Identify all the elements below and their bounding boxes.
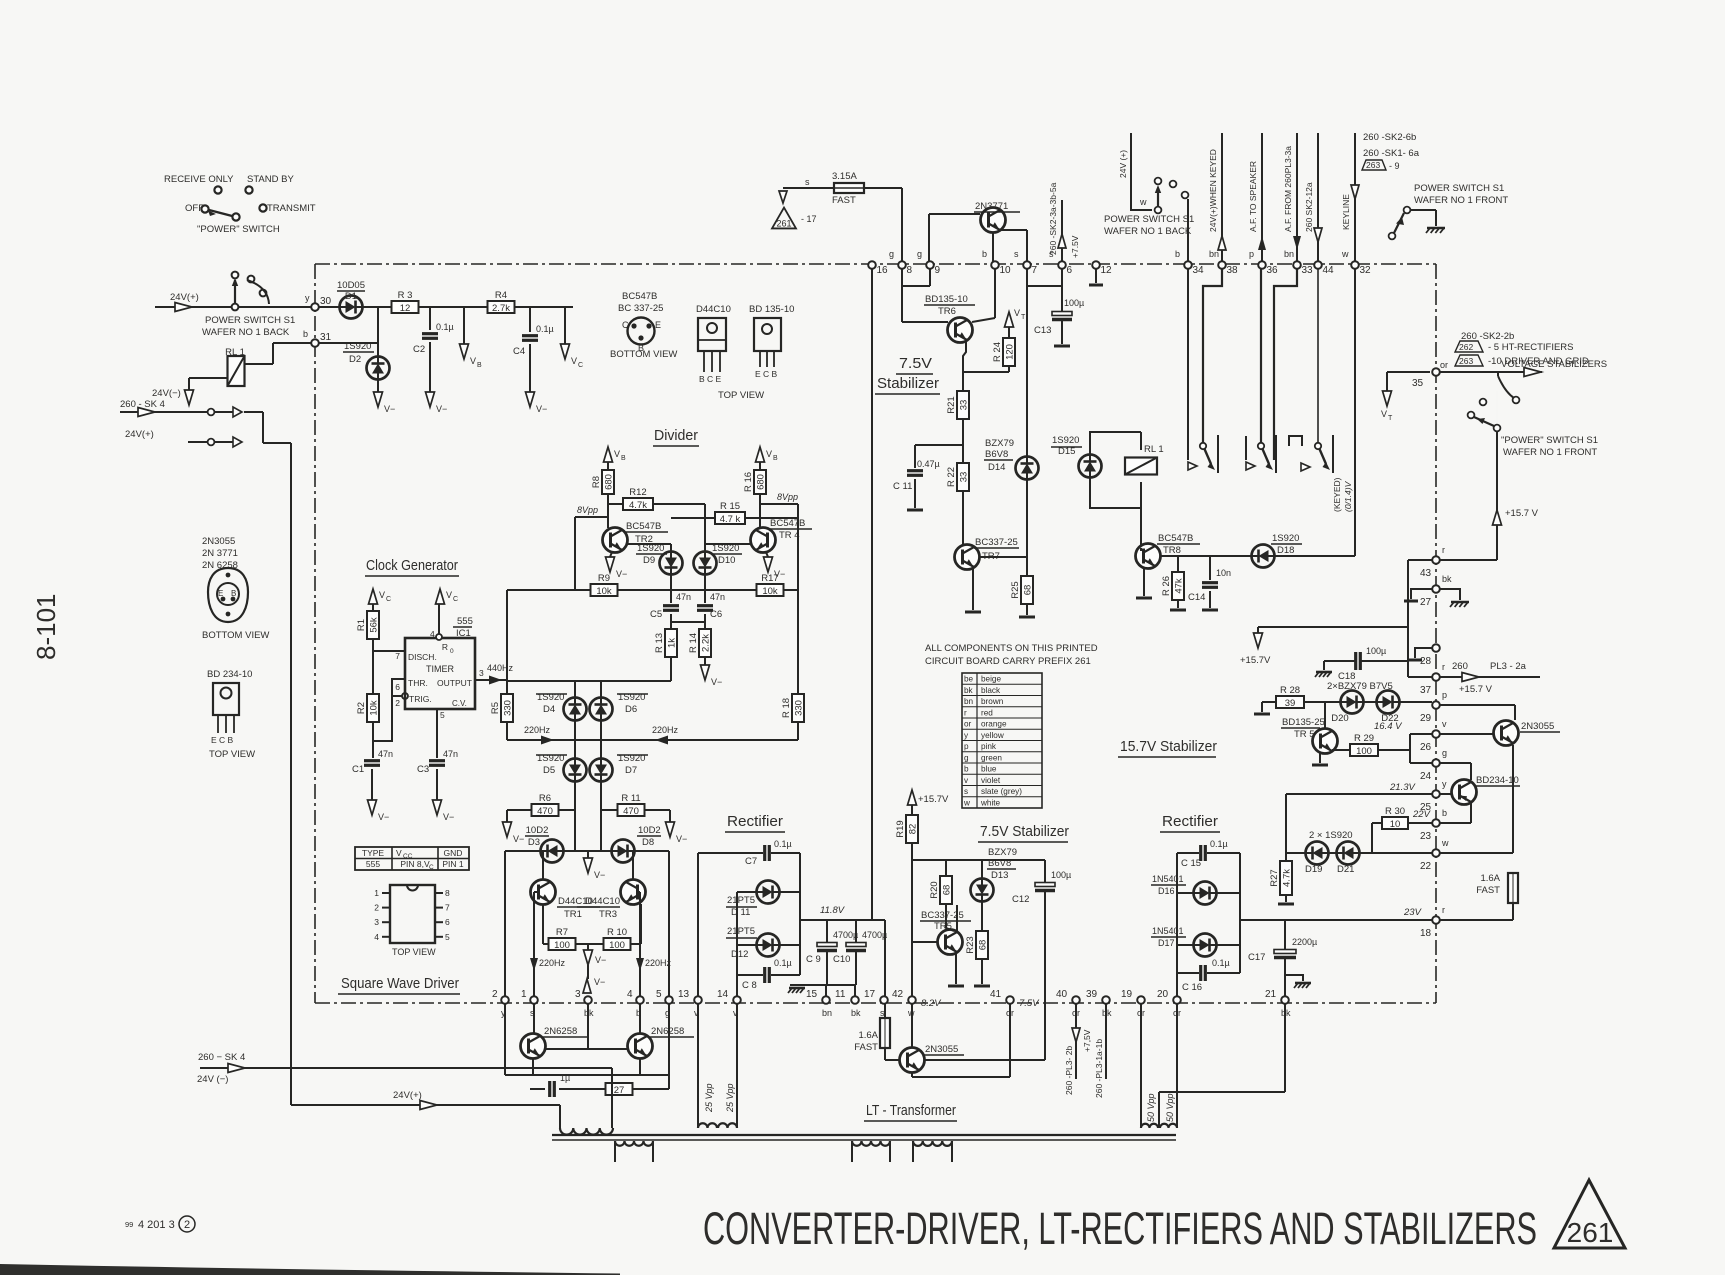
svg-text:10D2: 10D2 bbox=[526, 825, 549, 836]
svg-text:R1: R1 bbox=[356, 619, 367, 631]
wire D17 right bbox=[1217, 944, 1240, 946]
svg-text:5: 5 bbox=[440, 710, 445, 720]
wire col2 down bbox=[504, 851, 506, 1000]
svg-text:2N 3771: 2N 3771 bbox=[202, 548, 238, 559]
wire R12 to D10 col bbox=[653, 504, 705, 551]
wire R4 right bbox=[514, 306, 573, 308]
svg-text:7: 7 bbox=[445, 903, 450, 913]
node 220Hz arrow right bbox=[652, 725, 679, 745]
node terminal 30 bbox=[311, 296, 331, 311]
node terminal 43 bbox=[1420, 545, 1445, 579]
svg-text:r: r bbox=[1442, 662, 1445, 672]
svg-text:V−: V− bbox=[513, 834, 524, 844]
svg-text:D16: D16 bbox=[1158, 886, 1175, 896]
wire col2 below bbox=[504, 1004, 506, 1075]
node terminal 40 bbox=[1056, 989, 1080, 1018]
svg-text:260 − SK 4: 260 − SK 4 bbox=[198, 1052, 245, 1063]
node Rectifier title right bbox=[1160, 813, 1220, 832]
svg-text:BC547B: BC547B bbox=[626, 521, 661, 532]
svg-text:680: 680 bbox=[756, 474, 767, 490]
svg-text:7: 7 bbox=[395, 651, 400, 661]
svg-text:330: 330 bbox=[503, 700, 514, 716]
wire 22 row left bbox=[1286, 852, 1305, 854]
inductor 50Vpp winding bbox=[1141, 1124, 1177, 1128]
svg-text:24V(+): 24V(+) bbox=[393, 1090, 422, 1101]
wire 24V(+) to transformer bbox=[559, 1105, 561, 1128]
wire BD234 base col bbox=[1470, 763, 1472, 780]
ground C18 bbox=[1315, 672, 1332, 677]
svg-text:C: C bbox=[578, 362, 583, 369]
node terminal 7 bbox=[1014, 249, 1038, 276]
capacitor C18 100u bbox=[1338, 646, 1386, 682]
wire C8 right bbox=[771, 974, 800, 976]
wire C14 bar bbox=[1202, 591, 1218, 610]
svg-text:g: g bbox=[889, 249, 894, 259]
svg-text:14: 14 bbox=[717, 989, 729, 1000]
wire 22 row right bbox=[1440, 852, 1513, 854]
node R27 gnd bar bbox=[1278, 903, 1294, 906]
svg-text:260 -PL3-1a-1b: 260 -PL3-1a-1b bbox=[1094, 1039, 1104, 1098]
resistor R9 10k bbox=[591, 573, 618, 597]
wire R18 to 220Hz rail bbox=[797, 722, 799, 740]
wire R5 to 220Hz rail bbox=[506, 722, 508, 740]
svg-text:FAST: FAST bbox=[1476, 885, 1500, 896]
svg-text:TR3: TR3 bbox=[599, 909, 617, 920]
node PCB boundary bottom edge bbox=[315, 1002, 1436, 1004]
wire R7-R10 junction bbox=[576, 944, 603, 952]
svg-text:V−: V− bbox=[594, 977, 605, 987]
wire C11 to bar bbox=[914, 479, 916, 508]
wire C9 tap bbox=[826, 920, 828, 945]
wire D13 to R23 bbox=[981, 902, 983, 931]
svg-text:39: 39 bbox=[1285, 698, 1296, 709]
connector SK4 contact a bbox=[233, 407, 242, 417]
power VB arrow bbox=[460, 344, 483, 369]
wire TR5b emitter bbox=[1312, 753, 1328, 765]
switch POWER rotary arm bbox=[208, 210, 240, 221]
resistor R1 56k bbox=[356, 611, 380, 639]
svg-text:w: w bbox=[963, 798, 970, 807]
wire inter-transistor bbox=[545, 1048, 628, 1050]
svg-text:V−: V− bbox=[594, 870, 605, 880]
svg-text:26: 26 bbox=[1420, 742, 1432, 753]
wire col5 below bbox=[668, 1004, 670, 1089]
svg-text:T: T bbox=[1021, 314, 1026, 321]
resistor R21 33 bbox=[946, 391, 970, 419]
svg-text:R 22: R 22 bbox=[946, 467, 957, 487]
wire THR/TRIG bridge bbox=[373, 679, 405, 741]
node terminal 12 stub bbox=[1089, 268, 1103, 285]
node 28 hook bbox=[1408, 648, 1432, 660]
node sheet number triangle bbox=[1554, 1180, 1625, 1248]
node terminal 13 bbox=[678, 989, 702, 1018]
svg-text:s: s bbox=[805, 177, 810, 187]
transistor TR5 BD135-25 bbox=[1281, 717, 1338, 754]
fuse 1.6A mid bbox=[854, 1004, 890, 1053]
node 2N3055 package labels bbox=[202, 536, 238, 571]
node Square Wave Driver title bbox=[338, 975, 460, 994]
wire col1 below bbox=[533, 1004, 535, 1034]
node 260-SK2-3a-3b-5a label bbox=[1048, 182, 1058, 255]
node 8Vpp label right bbox=[777, 492, 798, 502]
diode D18 1S920 bbox=[1252, 533, 1303, 568]
svg-text:C13: C13 bbox=[1034, 325, 1051, 336]
svg-text:2200µ: 2200µ bbox=[1292, 937, 1317, 947]
wire corner to 25 row bbox=[1285, 794, 1287, 860]
svg-text:slate (grey): slate (grey) bbox=[981, 787, 1022, 796]
svg-text:100: 100 bbox=[554, 940, 570, 951]
transistor TR 2N6258 left bbox=[521, 1026, 588, 1059]
wire TR3 base bbox=[637, 892, 640, 1000]
node STAND BY contact bbox=[245, 174, 294, 194]
svg-text:TR5: TR5 bbox=[934, 921, 952, 932]
svg-text:b: b bbox=[303, 329, 308, 339]
svg-text:Divider: Divider bbox=[654, 427, 698, 444]
svg-text:bk: bk bbox=[851, 1008, 861, 1018]
transistor TR5 BC337-25 bbox=[920, 910, 971, 955]
wire rail to R18 corner bbox=[784, 590, 798, 695]
node terminal 20 bbox=[1157, 989, 1181, 1018]
svg-text:BD135-10: BD135-10 bbox=[925, 294, 968, 305]
wire D20-D22 bbox=[1364, 701, 1376, 703]
svg-text:10k: 10k bbox=[596, 586, 612, 597]
svg-text:39: 39 bbox=[1086, 989, 1098, 1000]
resistor R7 100 bbox=[549, 927, 576, 951]
svg-text:RECEIVE ONLY: RECEIVE ONLY bbox=[164, 174, 234, 185]
svg-text:TR8: TR8 bbox=[1163, 545, 1181, 556]
node terminal 28 bbox=[1420, 644, 1440, 667]
svg-text:41: 41 bbox=[990, 989, 1002, 1000]
svg-text:B C E: B C E bbox=[699, 374, 722, 384]
resistor R18 330 bbox=[781, 694, 805, 722]
svg-text:260 -SK2-3a-3b-5a: 260 -SK2-3a-3b-5a bbox=[1048, 182, 1058, 255]
svg-text:0.1µ: 0.1µ bbox=[774, 958, 792, 968]
wire C3 to V- bbox=[436, 769, 438, 800]
svg-text:16.4 V: 16.4 V bbox=[1374, 721, 1403, 732]
node 27 hook bbox=[1404, 589, 1432, 601]
svg-text:+7.5V: +7.5V bbox=[1070, 235, 1080, 258]
wire TR4 emitter bbox=[766, 552, 768, 557]
svg-text:R 10: R 10 bbox=[607, 927, 627, 938]
node Divider title bbox=[653, 427, 699, 446]
capacitor C17 2200u bbox=[1248, 920, 1317, 963]
svg-text:V−: V− bbox=[616, 569, 627, 579]
wire D15 loop bbox=[1090, 432, 1141, 508]
svg-text:(0/1.4)V: (0/1.4)V bbox=[1343, 480, 1353, 512]
svg-text:1k: 1k bbox=[667, 638, 678, 648]
diode D8 10D2 bbox=[612, 825, 662, 863]
diode D11 21PT5 bbox=[726, 881, 780, 919]
svg-text:68: 68 bbox=[1023, 585, 1034, 596]
svg-text:1N5401: 1N5401 bbox=[1152, 926, 1184, 936]
svg-text:C4: C4 bbox=[513, 346, 525, 357]
svg-text:260 -SK2-6b: 260 -SK2-6b bbox=[1363, 132, 1416, 143]
wire C17 bottom bbox=[1284, 958, 1286, 996]
svg-text:R 24: R 24 bbox=[992, 342, 1003, 362]
svg-text:0.47µ: 0.47µ bbox=[917, 459, 940, 469]
wire C13 stub bbox=[1061, 286, 1063, 314]
svg-text:0.1µ: 0.1µ bbox=[436, 322, 454, 332]
svg-text:C: C bbox=[622, 320, 629, 330]
wire C4 to V- bbox=[529, 344, 531, 392]
svg-text:+15.7V: +15.7V bbox=[918, 794, 949, 805]
svg-text:+15.7V: +15.7V bbox=[1240, 655, 1271, 666]
node 23V label bbox=[1403, 907, 1423, 918]
wire 2N3055 mid collector bbox=[925, 1059, 1045, 1061]
wire col44 up bbox=[1314, 133, 1322, 262]
wire 35 or row bbox=[1387, 360, 1448, 372]
svg-text:6: 6 bbox=[1067, 265, 1073, 276]
node +7.5V rotated bbox=[1070, 235, 1080, 258]
svg-text:1S920: 1S920 bbox=[1052, 435, 1079, 446]
svg-text:or: or bbox=[964, 720, 972, 729]
ic U1 555 timer box bbox=[395, 638, 484, 720]
wire rail to col17 bbox=[872, 920, 885, 996]
svg-text:white: white bbox=[980, 798, 1001, 807]
wire 2N3771 emitter bbox=[1000, 230, 1027, 262]
wire C9 bottom bbox=[826, 951, 828, 985]
node terminal 39 bbox=[1086, 989, 1112, 1018]
svg-text:D1: D1 bbox=[345, 291, 357, 302]
wire C7 row bbox=[698, 852, 763, 854]
svg-text:8: 8 bbox=[445, 888, 450, 898]
wire R15 right to 8Vpp col bbox=[745, 517, 798, 519]
svg-text:2N3055: 2N3055 bbox=[202, 536, 235, 547]
node terminal 34 bbox=[1175, 249, 1204, 276]
svg-text:+7,5V: +7,5V bbox=[1082, 1029, 1092, 1052]
wire BD234 emitter bbox=[1470, 803, 1472, 823]
svg-text:15: 15 bbox=[806, 989, 818, 1000]
node 16.4V label bbox=[1374, 721, 1403, 732]
wire R30 left bbox=[1372, 823, 1382, 853]
power +15.7V arrow R19 bbox=[908, 790, 950, 805]
svg-text:R 13: R 13 bbox=[654, 633, 665, 653]
wire 24V(+) feed row bbox=[291, 1090, 560, 1110]
svg-text:4.7 k: 4.7 k bbox=[720, 514, 741, 525]
resistor R16 680 bbox=[743, 462, 767, 494]
svg-text:R 11: R 11 bbox=[621, 793, 640, 804]
svg-text:2N3055: 2N3055 bbox=[925, 1044, 958, 1055]
wire RL1 col bbox=[1140, 432, 1142, 548]
resistor R11 470 bbox=[601, 793, 670, 822]
node triangle 261 -17 bbox=[772, 208, 817, 229]
diode D21 1S920 bbox=[1337, 842, 1360, 876]
svg-text:B6V8: B6V8 bbox=[985, 449, 1008, 460]
svg-text:2: 2 bbox=[374, 903, 379, 913]
wire D1 to R3 bbox=[362, 306, 392, 308]
svg-text:B: B bbox=[477, 362, 482, 369]
svg-text:PL3 - 2a: PL3 - 2a bbox=[1490, 661, 1527, 672]
svg-text:11: 11 bbox=[835, 989, 846, 1000]
inductor secondary winding b bbox=[852, 1141, 890, 1162]
node 260-SK1-6a label bbox=[1363, 148, 1420, 159]
node 260-SK4 label bbox=[120, 399, 165, 410]
svg-text:68: 68 bbox=[978, 940, 989, 951]
svg-text:r: r bbox=[1442, 905, 1445, 915]
svg-text:w: w bbox=[1139, 197, 1147, 207]
resistor 27 bbox=[606, 1083, 633, 1096]
svg-text:24V (−): 24V (−) bbox=[197, 1074, 228, 1085]
node terminal 2 bbox=[492, 989, 509, 1018]
svg-text:C: C bbox=[429, 864, 434, 871]
svg-text:r: r bbox=[1442, 545, 1445, 555]
node TOP VIEW caption mid bbox=[718, 390, 764, 401]
node terminal 15 bbox=[806, 989, 832, 1018]
inductor 25Vpp winding bbox=[698, 1123, 737, 1128]
svg-text:680: 680 bbox=[604, 474, 615, 490]
power VB arrow R8 bbox=[604, 447, 627, 462]
wire RL1 to 24V(-) arrow bbox=[189, 378, 228, 390]
svg-text:43: 43 bbox=[1420, 568, 1432, 579]
wire D11 right bbox=[779, 891, 800, 893]
svg-text:STAND BY: STAND BY bbox=[247, 174, 294, 185]
node C13 gnd bar bbox=[1054, 345, 1070, 348]
svg-text:C6: C6 bbox=[710, 609, 722, 620]
diode D20 BZX79 bbox=[1327, 681, 1393, 724]
wire col3 bbox=[587, 965, 589, 979]
svg-text:TR 4: TR 4 bbox=[779, 530, 800, 541]
node terminal 6 bbox=[1049, 249, 1073, 276]
wire 35 right to arrow bbox=[1440, 368, 1542, 377]
svg-text:21PT5: 21PT5 bbox=[727, 926, 755, 937]
node 262-5 HT-RECTIFIERS bbox=[1455, 341, 1574, 353]
svg-text:C: C bbox=[453, 596, 458, 603]
wire R19 to 42 bbox=[911, 843, 913, 996]
svg-text:82: 82 bbox=[908, 824, 919, 835]
transistor TR 2N3055 mid bbox=[900, 1044, 965, 1073]
node y wire label bbox=[305, 293, 310, 303]
svg-text:37: 37 bbox=[1420, 685, 1432, 696]
relay RL1 right bbox=[1125, 444, 1164, 475]
wire 27 to col5 bbox=[633, 1088, 669, 1090]
node 263-10 DRIVER bbox=[1455, 355, 1607, 370]
diode D17 1N5401 bbox=[1151, 926, 1217, 957]
wire C7 right bbox=[771, 852, 800, 854]
svg-text:g: g bbox=[964, 753, 969, 762]
wire TR8-D18 row bbox=[1160, 555, 1251, 557]
svg-text:C10: C10 bbox=[833, 954, 850, 965]
svg-text:D5: D5 bbox=[543, 765, 555, 776]
wire R29 to col bbox=[1378, 749, 1410, 751]
capacitor C12 100u bbox=[1012, 860, 1071, 905]
transistor TR4 BC547B bbox=[751, 518, 813, 553]
power V- below C1 bbox=[368, 800, 390, 822]
wire C1 to V- bbox=[371, 769, 373, 800]
resistor R17 10k bbox=[757, 573, 784, 597]
switch S1 front 2 bbox=[1468, 372, 1520, 431]
svg-text:1.6A: 1.6A bbox=[1480, 873, 1500, 884]
svg-text:"POWER" SWITCH: "POWER" SWITCH bbox=[197, 224, 280, 235]
svg-text:42: 42 bbox=[892, 989, 904, 1000]
diode D13 BZX79 bbox=[971, 847, 1018, 902]
svg-text:262: 262 bbox=[1459, 342, 1473, 352]
wire C18 leads bbox=[1324, 661, 1408, 670]
node terminal 11 bbox=[835, 989, 861, 1018]
wire C4 branch bbox=[529, 307, 531, 332]
svg-text:4: 4 bbox=[627, 989, 633, 1000]
wire col7 down bbox=[1026, 268, 1028, 456]
power 24V(-) arrow left bbox=[152, 388, 194, 405]
svg-text:V: V bbox=[614, 449, 620, 459]
svg-text:3.15A: 3.15A bbox=[832, 171, 857, 182]
switch wafer A contact (term 34) bbox=[1188, 268, 1197, 470]
svg-text:bk: bk bbox=[1102, 1008, 1112, 1018]
svg-text:VOLTAGE STABILIZERS: VOLTAGE STABILIZERS bbox=[1501, 359, 1607, 370]
svg-text:D44C10: D44C10 bbox=[696, 304, 731, 315]
node output column bbox=[506, 590, 508, 695]
svg-text:DISCH.: DISCH. bbox=[408, 652, 437, 662]
node doc number bbox=[125, 1216, 195, 1232]
power V- R6 bbox=[503, 822, 525, 844]
svg-text:6: 6 bbox=[395, 682, 400, 692]
svg-text:R 29: R 29 bbox=[1354, 733, 1374, 744]
node PCB boundary top edge bbox=[315, 263, 1436, 265]
svg-text:R5: R5 bbox=[490, 702, 501, 714]
power V- R7R10 bbox=[584, 950, 607, 965]
svg-text:4 201 3: 4 201 3 bbox=[138, 1219, 175, 1231]
svg-text:r: r bbox=[964, 708, 967, 717]
node 555 pin table bbox=[355, 847, 469, 871]
wire D5 to R6 row bbox=[575, 782, 601, 810]
svg-text:TR6: TR6 bbox=[938, 306, 956, 317]
svg-text:440Hz: 440Hz bbox=[487, 663, 514, 673]
svg-text:Square Wave Driver: Square Wave Driver bbox=[341, 975, 459, 992]
svg-text:TIMER: TIMER bbox=[426, 664, 454, 674]
node KEYLINE label bbox=[1341, 194, 1351, 230]
svg-text:V−: V− bbox=[443, 812, 454, 822]
wire rect right col bbox=[799, 853, 801, 975]
wire fuse to 2N3055 base bbox=[885, 1048, 900, 1060]
svg-text:24V (+): 24V (+) bbox=[1118, 150, 1128, 178]
svg-text:0.1µ: 0.1µ bbox=[774, 839, 792, 849]
svg-text:E: E bbox=[655, 320, 661, 330]
diode D14 BZX79 B6V8 bbox=[984, 438, 1039, 557]
svg-text:99: 99 bbox=[125, 1220, 133, 1229]
svg-text:BZX79: BZX79 bbox=[985, 438, 1014, 449]
svg-text:D20: D20 bbox=[1331, 713, 1348, 724]
svg-text:bk: bk bbox=[1442, 574, 1452, 584]
svg-text:0: 0 bbox=[450, 648, 454, 655]
power V- TR2 bbox=[606, 557, 628, 579]
wire 25Vpp left leg bbox=[697, 1004, 699, 1128]
wire col38 up bbox=[1218, 133, 1226, 262]
resistor R2 10k bbox=[356, 694, 380, 722]
diode D7 1S920 bbox=[590, 753, 649, 782]
diode D2 1S920 bbox=[343, 341, 390, 380]
ground right of 27 bbox=[1440, 589, 1469, 607]
svg-text:black: black bbox=[981, 686, 1001, 695]
svg-text:7.5V: 7.5V bbox=[1019, 998, 1040, 1009]
svg-text:22V: 22V bbox=[1412, 809, 1432, 820]
wire 2N3771 left bbox=[929, 214, 980, 262]
capacitor C8 0.1u bbox=[737, 958, 792, 991]
wire +15.7V branch bbox=[1258, 627, 1408, 633]
svg-text:47n: 47n bbox=[443, 749, 458, 759]
inductor primary winding bbox=[560, 1128, 613, 1135]
wire TR2 emitter bbox=[610, 552, 612, 557]
svg-text:24V(+): 24V(+) bbox=[170, 292, 199, 303]
node RECEIVE ONLY contact bbox=[164, 174, 234, 194]
node 24V(+) rotated label bbox=[1118, 150, 1128, 178]
svg-text:- 5 HT-RECTIFIERS: - 5 HT-RECTIFIERS bbox=[1488, 342, 1574, 353]
wire 31 to RL1 bbox=[243, 343, 311, 364]
node 263-9 ref bbox=[1362, 160, 1400, 171]
svg-text:470: 470 bbox=[537, 806, 553, 817]
wire 37 row bbox=[1408, 676, 1432, 678]
resistor R15 4.7k bbox=[671, 501, 745, 525]
switch wafer B fixed (term 33) bbox=[1274, 268, 1297, 460]
node LT-Transformer title bbox=[864, 1102, 957, 1121]
